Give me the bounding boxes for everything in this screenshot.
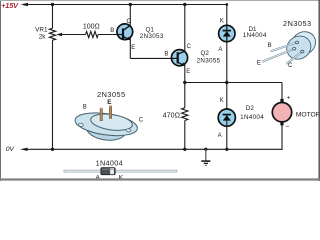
junction rail-VR1 [51, 3, 54, 6]
junction 0V-VR1 [51, 148, 54, 151]
ground [201, 149, 210, 165]
svg-text:100Ω: 100Ω [83, 24, 100, 31]
wire R1 to Q1 base [98, 34, 117, 36]
package 2N3055 pin B [100, 108, 102, 121]
wire Q1 emitter down [129, 38, 131, 58]
svg-text:E: E [186, 69, 190, 75]
package 2N3055 pin E [109, 106, 111, 119]
svg-text:2N3053: 2N3053 [283, 19, 312, 28]
svg-text:+15V: +15V [1, 1, 19, 10]
resistor R1 100Ω [86, 31, 99, 37]
package 1N4004 body [101, 168, 115, 175]
resistor R2 470Ω [182, 108, 188, 121]
junction rail corner D1 [225, 3, 228, 6]
svg-text:470Ω: 470Ω [163, 110, 181, 119]
junction 0V-ground [204, 148, 207, 151]
package 2N3053 lead B [271, 41, 299, 51]
transistor Q1 2N3053 [117, 24, 133, 40]
wire 0V corner motor [281, 149, 283, 150]
node +15V arrow [21, 3, 28, 6]
svg-text:−: − [285, 122, 290, 131]
junction Q2 emitter node [183, 81, 186, 84]
junction rail-Q2 collector [183, 3, 186, 6]
svg-text:2N3055: 2N3055 [197, 58, 221, 65]
svg-text:C: C [288, 63, 293, 69]
junction 0V-470Ω [183, 148, 186, 151]
wire 470Ω lower lead [184, 121, 186, 150]
junction D branch node [225, 81, 228, 84]
package 2N3055 TO-3 body [74, 109, 139, 142]
motor M1 [272, 99, 291, 125]
svg-text:E: E [257, 60, 261, 66]
svg-text:Q2: Q2 [200, 50, 209, 57]
transistor Q2 2N3055 [171, 50, 187, 66]
svg-text:2N3053: 2N3053 [140, 33, 164, 40]
wire D1 anode down to node [226, 42, 228, 83]
svg-text:1N4004: 1N4004 [96, 158, 123, 167]
wire VR1 lower lead down to 0V [52, 40, 54, 149]
svg-text:B: B [83, 104, 87, 110]
svg-text:B: B [110, 28, 114, 34]
svg-text:B: B [268, 43, 272, 49]
wire motor branch down from mid rail [281, 83, 283, 100]
svg-text:K: K [220, 98, 224, 104]
svg-text:A: A [218, 133, 222, 139]
junction rail-Q1 collector [129, 3, 132, 6]
svg-text:E: E [131, 45, 135, 51]
package 2N3053 lead E [262, 47, 296, 61]
wire 470Ω upper lead [184, 83, 186, 108]
svg-text:D2: D2 [246, 105, 255, 112]
package 1N4004 lead [64, 170, 177, 172]
diode D1 1N4004 [219, 25, 235, 41]
wire Q2 emitter down [184, 64, 186, 82]
svg-text:B: B [164, 52, 168, 58]
potentiometer VR1 wiper arrow [56, 33, 63, 36]
svg-text:E: E [107, 99, 111, 106]
wire 0V rail [26, 148, 283, 150]
svg-text:2N3055: 2N3055 [97, 90, 126, 99]
svg-text:MOTOR: MOTOR [296, 112, 320, 119]
wire Q1 collector up [129, 5, 131, 26]
wire motor to 0V [281, 125, 283, 149]
package 2N3053 lead C [287, 50, 304, 64]
svg-text:2k: 2k [39, 33, 47, 40]
wire wiper to R1 [63, 34, 86, 36]
svg-text:C: C [139, 117, 144, 123]
package 2N3053 TO-39 can [282, 27, 320, 64]
svg-text:1N4004: 1N4004 [240, 114, 264, 121]
wire VR1 upper lead [52, 5, 54, 29]
node 0V arrow [20, 148, 27, 151]
wire top +15V rail [26, 4, 227, 6]
svg-text:K: K [220, 18, 224, 24]
svg-text:VR1: VR1 [35, 26, 48, 33]
wire D1 branch from rail corner down [226, 4, 228, 25]
wire Q2 collector up [184, 5, 186, 52]
wire emitter junction to motor (mid rail) [185, 82, 282, 84]
potentiometer VR1 2k [49, 28, 55, 40]
frame border [0, 0, 320, 181]
svg-text:+: + [287, 95, 291, 102]
svg-text:1N4004: 1N4004 [243, 32, 267, 39]
svg-text:C: C [187, 44, 192, 50]
wire Q1 emitter to Q2 base [130, 57, 172, 59]
svg-text:A: A [218, 47, 222, 53]
diode D2 1N4004 [218, 83, 235, 150]
junction 0V-D2 [225, 148, 228, 151]
